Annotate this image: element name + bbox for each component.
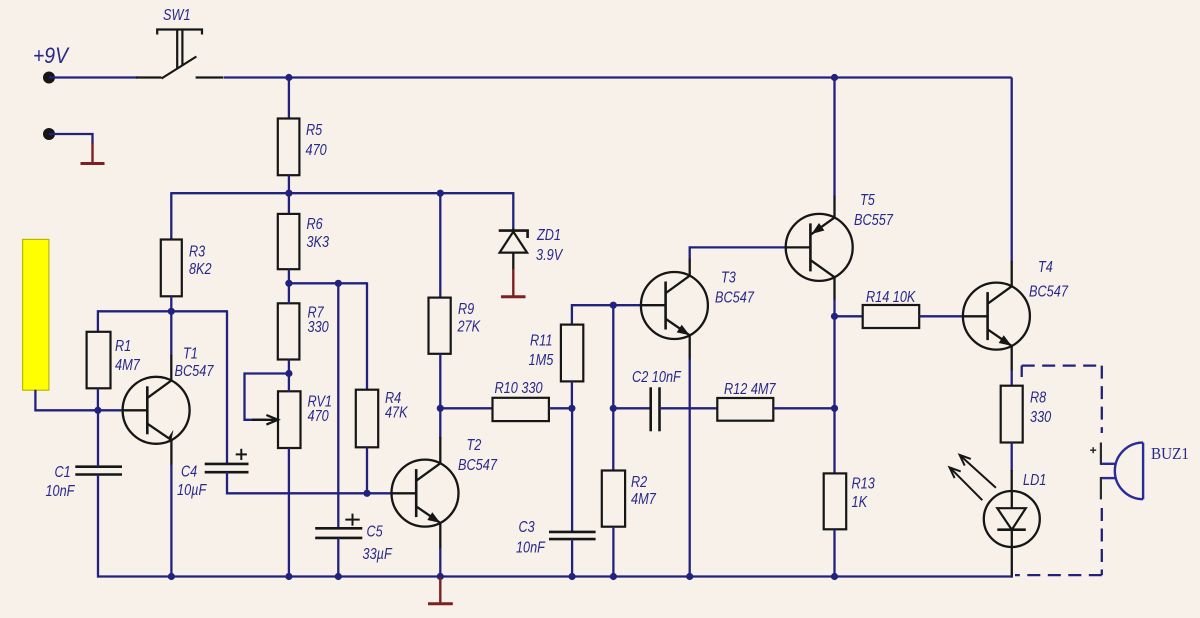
svg-text:C4: C4: [181, 464, 197, 481]
wire C3 bottom lead: [571, 539, 573, 578]
wire R4 bottom lead: [366, 447, 368, 493]
svg-text:LD1: LD1: [1023, 472, 1046, 489]
wire bottom rail: [98, 575, 1012, 577]
node junction T1 base: [94, 407, 101, 414]
wire R13 column: [833, 316, 835, 474]
node junction T3 base column: [610, 302, 617, 309]
wire collector node horizontal: [98, 310, 227, 312]
transistor T2: [392, 460, 459, 527]
capacitor C1: [75, 467, 122, 475]
wire T1 collector lead: [170, 311, 172, 356]
wire T2 collector lead: [439, 408, 441, 438]
wire RV1 bottom lead: [288, 448, 290, 578]
ground below ZD1: [501, 269, 526, 297]
svg-text:R3: R3: [189, 244, 205, 261]
electrode probe: [23, 239, 49, 390]
resistor R13: [824, 473, 847, 529]
wire R13 bottom lead: [833, 529, 835, 576]
wire T3 collector to T5 base: [689, 258, 691, 276]
svg-text:R9: R9: [458, 301, 474, 318]
LED emission arrows: [952, 457, 996, 501]
ground below T2 emitter: [428, 578, 453, 604]
wire R4 column: [366, 282, 368, 390]
wire C3 top lead: [571, 408, 573, 532]
wire C2 left lead: [613, 407, 650, 409]
svg-text:T1: T1: [183, 346, 198, 363]
zener ZD1: [499, 228, 528, 270]
wire C4 top column: [226, 310, 228, 464]
wire R3 bottom lead: [170, 296, 172, 311]
wire top rail: [224, 76, 1012, 78]
svg-text:R12 4M7: R12 4M7: [724, 381, 777, 398]
switch SW1: [136, 30, 224, 79]
node junction R4 / T2 base: [363, 490, 370, 497]
wire R14 right lead to T4 base: [919, 315, 963, 317]
svg-text:10nF: 10nF: [46, 483, 76, 500]
wire R9 top lead: [439, 193, 441, 298]
resistor R11: [561, 325, 583, 382]
wire R7 bottom lead: [288, 360, 290, 374]
wire electrode to base node: [35, 390, 98, 411]
wire R6 node to R4 column: [289, 282, 367, 284]
svg-text:27K: 27K: [457, 319, 481, 336]
buzzer terminal brackets: [1090, 443, 1101, 500]
svg-text:47K: 47K: [385, 405, 408, 422]
svg-text:BC547: BC547: [458, 457, 498, 474]
svg-text:BC547: BC547: [1029, 284, 1069, 301]
LED LD1: [984, 491, 1040, 547]
svg-text:BC557: BC557: [854, 212, 894, 229]
wire T1 emitter lead: [170, 440, 172, 465]
node junction R9 / R10 / T2 collector: [437, 405, 444, 412]
+9V terminal: [43, 72, 55, 84]
svg-text:R5: R5: [306, 122, 322, 139]
wire R11 to T3 base lead: [641, 304, 666, 306]
svg-text:470: 470: [306, 142, 327, 159]
node junction C2 row: [610, 405, 617, 412]
wire R6 top lead: [288, 193, 290, 214]
svg-text:T5: T5: [860, 192, 875, 209]
resistor R3: [161, 240, 182, 297]
resistor R1: [87, 332, 111, 389]
node junction T5 collector / R14 / R13: [831, 313, 838, 320]
wire RV1 top lead: [288, 374, 290, 392]
transistor T5: [786, 214, 853, 281]
wire RV1 wiper: [245, 374, 289, 420]
wire R5 bottom lead: [288, 175, 290, 193]
potentiometer RV1: [278, 391, 301, 448]
svg-text:330: 330: [1030, 409, 1051, 426]
wire R12 right lead: [773, 407, 834, 409]
ground terminal: [43, 128, 55, 140]
resistor R7: [278, 303, 300, 359]
node junction mid rail / R5: [285, 190, 292, 197]
wire R1 bottom lead: [97, 388, 99, 410]
svg-text:ZD1: ZD1: [536, 227, 561, 244]
svg-text:R2: R2: [631, 474, 647, 491]
node junction R6/R7: [285, 280, 292, 287]
node junction R12 / T5 collector column: [831, 405, 838, 412]
transistor T3: [641, 272, 708, 339]
svg-text:R10 330: R10 330: [495, 380, 543, 397]
wire ZD1 top lead: [512, 192, 514, 228]
wire mid rail: [171, 192, 513, 194]
svg-text:C3: C3: [519, 519, 535, 536]
capacitor C4: [205, 449, 249, 472]
wire T1 base lead: [98, 409, 123, 411]
svg-text:R6: R6: [307, 216, 323, 233]
capacitor C3: [549, 532, 596, 539]
node junction top rail / R5: [285, 74, 292, 81]
node junction R7/RV1: [285, 370, 292, 377]
node junction mid rail / R9: [437, 190, 444, 197]
node rail junctions: [168, 573, 175, 580]
resistor R10: [493, 398, 549, 421]
resistor R5: [278, 119, 300, 176]
svg-text:4M7: 4M7: [115, 357, 141, 374]
resistor R8: [1001, 386, 1023, 443]
wire LD1 bottom lead: [1011, 547, 1013, 578]
svg-text:C1: C1: [55, 464, 71, 481]
svg-text:10µF: 10µF: [177, 482, 207, 499]
wire R1 top lead: [97, 310, 99, 332]
svg-text:T4: T4: [1038, 259, 1053, 276]
svg-text:SW1: SW1: [163, 7, 191, 24]
wire R8 bottom lead: [1011, 443, 1013, 472]
svg-text:4M7: 4M7: [631, 491, 657, 508]
wire C1 top lead: [97, 410, 99, 466]
svg-text:10nF: 10nF: [516, 540, 546, 557]
wire T5 collector lead: [833, 277, 835, 300]
svg-text:R13: R13: [852, 476, 876, 493]
resistor R12: [717, 398, 773, 421]
svg-text:T2: T2: [467, 437, 482, 454]
svg-text:3.9V: 3.9V: [536, 247, 564, 264]
capacitor C2: [651, 387, 660, 431]
wire C4 bottom lead: [227, 472, 392, 493]
capacitor C5: [315, 514, 362, 538]
wire +9V to switch: [49, 76, 137, 78]
wire terminal to ground: [49, 134, 93, 144]
wire T2 emitter lead: [439, 523, 441, 550]
svg-text:8K2: 8K2: [189, 261, 212, 278]
svg-text:BC547: BC547: [175, 363, 215, 380]
svg-text:T3: T3: [721, 270, 736, 287]
svg-text:C5: C5: [367, 524, 383, 541]
svg-text:1K: 1K: [852, 494, 868, 511]
svg-text:BUZ1: BUZ1: [1151, 444, 1189, 463]
wire R2 bottom lead: [612, 527, 614, 578]
svg-text:R14 10K: R14 10K: [866, 289, 916, 306]
svg-text:+9V: +9V: [33, 43, 70, 68]
node junction C5 column: [335, 280, 342, 287]
svg-text:470: 470: [308, 408, 329, 425]
wire R14 left lead: [835, 315, 864, 317]
svg-text:330: 330: [308, 319, 329, 336]
wire T3 emitter lead: [689, 335, 691, 360]
transistor T4: [963, 283, 1030, 350]
wire R6 bottom lead: [288, 269, 290, 283]
wire R10 right lead: [549, 407, 572, 409]
wire R7 top lead: [288, 283, 290, 304]
wire C5 bottom lead: [337, 538, 339, 578]
node junction R10 / R11 / C3: [568, 405, 575, 412]
wire T4 collector lead: [1011, 78, 1013, 263]
resistor R6: [278, 214, 300, 269]
wire C2 right lead: [660, 407, 718, 409]
wire R3 top lead: [170, 192, 172, 240]
wire R5 top lead: [288, 78, 290, 120]
wire C1 bottom lead: [97, 475, 99, 578]
svg-text:R8: R8: [1030, 390, 1046, 407]
svg-text:1M5: 1M5: [529, 352, 554, 369]
wire T3 base column: [612, 305, 614, 471]
buzzer BUZ1: [1101, 443, 1143, 500]
wire C5 column upper: [337, 283, 339, 528]
ground: [81, 143, 105, 164]
node junction top rail / T5 emitter: [831, 74, 838, 81]
wire T4 emitter lead: [1011, 346, 1013, 372]
svg-text:BC547: BC547: [715, 290, 755, 307]
resistor R9: [429, 298, 451, 354]
wire R9 bottom lead: [439, 354, 441, 409]
transistor T1: [123, 377, 190, 444]
wire R10 left lead: [440, 407, 493, 409]
dashed enclosure: [1015, 366, 1102, 575]
wire T5 emitter lead: [833, 195, 835, 218]
resistor R14: [863, 305, 920, 328]
resistor R4: [356, 390, 378, 448]
svg-text:C2 10nF: C2 10nF: [632, 369, 682, 386]
svg-text:R1: R1: [115, 338, 131, 355]
wire R11 bottom lead: [571, 381, 573, 408]
svg-text:3K3: 3K3: [307, 234, 330, 251]
resistor R2: [602, 471, 625, 527]
svg-text:R11: R11: [530, 333, 552, 350]
node junction R3 / R1 / T1 collector: [168, 308, 175, 315]
wire R11 top lead: [572, 305, 641, 325]
svg-text:33µF: 33µF: [363, 546, 393, 563]
